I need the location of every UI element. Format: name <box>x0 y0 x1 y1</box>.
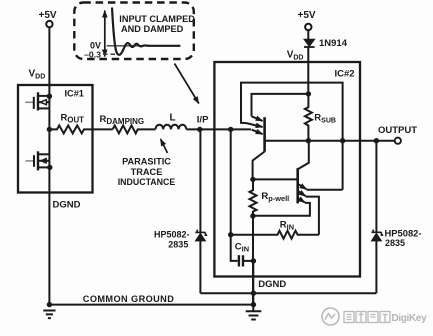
transistor M1 PMOS gate bar <box>33 97 35 109</box>
wire Q1 collector to Q2 base <box>253 178 298 180</box>
diode D1 HP5082-2835 left <box>195 233 205 241</box>
watermark text <box>344 312 390 323</box>
wire DGND down to common ground <box>252 261 254 311</box>
+5V supply terminal left <box>46 21 52 27</box>
resistor RIN <box>231 231 319 239</box>
svg-text:L: L <box>170 113 176 124</box>
svg-text:–0.3: –0.3 <box>84 50 101 60</box>
svg-text:+5V: +5V <box>39 10 57 21</box>
svg-text:2835: 2835 <box>168 240 188 250</box>
transistor M2 NMOS body arrow <box>40 158 46 163</box>
svg-text:AND DAMPED: AND DAMPED <box>121 24 184 34</box>
resistor RDAMPING <box>113 125 156 133</box>
npn emitter arrow 1 <box>298 184 307 190</box>
resistor Rp-well <box>250 179 257 304</box>
arrow callout to I/P <box>175 64 199 104</box>
transistor M2 NMOS drain stub <box>38 153 49 155</box>
transistor M1 PMOS gate lead <box>25 101 33 103</box>
svg-text:DigiKey: DigiKey <box>392 313 428 324</box>
svg-text:INDUCTANCE: INDUCTANCE <box>118 177 176 187</box>
svg-text:INPUT CLAMPED: INPUT CLAMPED <box>119 14 195 24</box>
wire loop2 emitter2 to VDD node <box>252 94 309 116</box>
transistor M1 PMOS source stub <box>38 107 49 109</box>
pnp emitter arrow 2 middle <box>247 123 263 127</box>
diode D2 HP5082-2835 right wire <box>375 141 377 233</box>
svg-text:VDD: VDD <box>287 50 304 62</box>
wire npn e3 to p-well node <box>253 203 310 216</box>
diode 1N914 <box>304 39 315 46</box>
svg-text:ROUT: ROUT <box>61 113 85 125</box>
wire npn e2 down to RIN <box>306 197 319 235</box>
wire VDD right down to diode <box>307 30 309 39</box>
svg-text:RSUB: RSUB <box>314 113 336 125</box>
wire common ground bus <box>49 304 253 306</box>
diode D2 HP5082-2835 right <box>371 233 381 241</box>
svg-text:OUTPUT: OUTPUT <box>378 125 417 136</box>
npn emitter arrow 3 <box>298 198 305 203</box>
arrow parasitic label to inductor <box>161 139 168 153</box>
OUTPUT terminal <box>395 138 401 144</box>
watermark logo <box>322 308 339 325</box>
waveform trace <box>112 8 180 55</box>
transistor Q1 PNP base bar <box>263 117 266 152</box>
wire schottky ground return line <box>200 292 376 294</box>
ground symbol right <box>246 311 262 319</box>
transistor Q2 NPN collector <box>298 141 309 170</box>
svg-text:VDD: VDD <box>29 69 46 81</box>
svg-text:+5V: +5V <box>298 10 316 21</box>
transistor M1 PMOS channel bar <box>37 92 39 110</box>
resistor RSUB <box>305 94 312 141</box>
IC#2 outer box <box>214 62 360 277</box>
waveform amplitude arrow <box>104 11 106 57</box>
transistor M2 NMOS gate lead <box>25 160 33 162</box>
transistor M1 PMOS drain stub <box>38 95 49 97</box>
waveform -0.3 dashed level <box>103 53 118 55</box>
transistor Q2 NPN base bar <box>296 168 299 203</box>
svg-text:COMMON GROUND: COMMON GROUND <box>83 294 174 304</box>
wire output node line <box>265 140 395 142</box>
svg-text:Rp-well: Rp-well <box>261 191 289 203</box>
svg-text:TRACE: TRACE <box>131 167 163 177</box>
svg-text:IC#1: IC#1 <box>65 89 84 99</box>
transistor M2 NMOS source stub <box>38 166 49 168</box>
pnp emitter arrow 3 from input <box>252 130 263 135</box>
svg-text:PARASITIC: PARASITIC <box>122 157 171 167</box>
svg-text:RDAMPING: RDAMPING <box>100 114 145 126</box>
wire VDD into IC#2 <box>307 47 309 94</box>
wire I/P line into IC#2 <box>186 128 251 130</box>
+5V supply terminal right <box>305 24 311 30</box>
transistor Q1 PNP collector <box>253 152 265 180</box>
inductor L parasitic trace inductance <box>156 125 187 130</box>
wire npn e1 to loop1 <box>307 189 343 191</box>
transistor M2 NMOS gate bar <box>33 155 35 167</box>
svg-text:HP5082-: HP5082- <box>385 228 422 239</box>
svg-text:DGND: DGND <box>53 200 81 211</box>
transistor M2 NMOS body stub <box>38 160 49 162</box>
svg-text:RIN: RIN <box>280 219 294 231</box>
transistor M1 PMOS body stub <box>38 101 49 103</box>
diode D1 HP5082-2835 left wire <box>199 129 201 233</box>
svg-text:HP5082-: HP5082- <box>154 230 190 240</box>
svg-text:I/P: I/P <box>197 115 209 126</box>
svg-text:DGND: DGND <box>258 279 286 290</box>
svg-text:IC#2: IC#2 <box>335 68 355 79</box>
resistor ROUT <box>49 125 112 133</box>
wire loop1 emitter to output node <box>241 83 343 190</box>
IC#1 box <box>18 85 93 193</box>
pnp emitter arrow 1 top <box>252 116 263 121</box>
wire VDD rail IC#1 vertical <box>48 27 50 304</box>
waveform 0V reference line <box>107 45 181 47</box>
svg-text:1N914: 1N914 <box>319 38 348 49</box>
wire input branch down to CIN <box>231 129 238 261</box>
svg-text:CIN: CIN <box>235 242 249 254</box>
ground symbol left <box>43 311 55 319</box>
npn emitter arrow 2 <box>298 191 306 196</box>
transistor M1 PMOS body arrow <box>40 100 46 105</box>
capacitor CIN <box>238 255 240 266</box>
dashed callout box <box>74 3 194 60</box>
svg-text:2835: 2835 <box>385 238 405 248</box>
transistor M2 NMOS channel bar <box>37 151 39 170</box>
